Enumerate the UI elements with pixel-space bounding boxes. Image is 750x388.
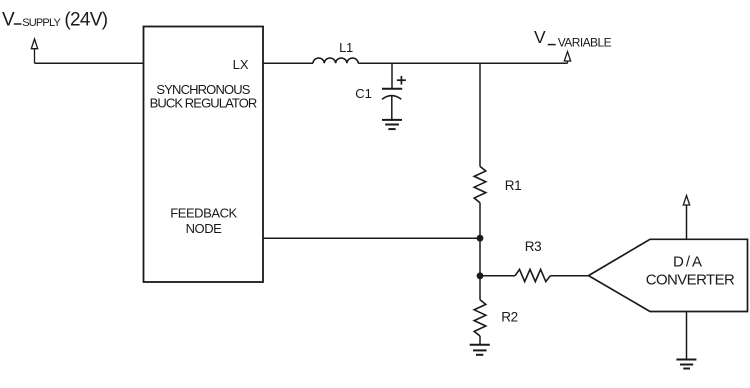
svg-text:(24V): (24V) bbox=[64, 9, 107, 30]
junction dot R2/R3 bbox=[477, 272, 484, 279]
svg-text:V: V bbox=[534, 27, 546, 47]
svg-text:C1: C1 bbox=[355, 86, 372, 101]
resistor R3 bbox=[515, 269, 550, 281]
wire C1 to ground bbox=[391, 96, 393, 120]
svg-text:FEEDBACK: FEEDBACK bbox=[170, 205, 237, 220]
arrow V_VARIABLE bbox=[564, 52, 570, 64]
junction dot feedback bbox=[477, 235, 484, 242]
capacitor C1 bbox=[382, 89, 402, 100]
svg-text:R2: R2 bbox=[501, 309, 517, 324]
svg-text:LX: LX bbox=[233, 57, 249, 72]
wire L1 to V_VARIABLE bbox=[358, 62, 567, 64]
svg-text:VARIABLE: VARIABLE bbox=[558, 35, 612, 49]
inductor L1 bbox=[313, 58, 358, 63]
ground (D/A) bbox=[676, 360, 696, 369]
ground (R2) bbox=[470, 345, 490, 355]
svg-text:L1: L1 bbox=[339, 40, 353, 55]
wire junction to R2 bbox=[479, 276, 481, 300]
wire R1 to feedback junction bbox=[479, 203, 481, 239]
polarity + of C1 bbox=[397, 76, 406, 85]
wire feedback junction to R3 junction bbox=[479, 238, 481, 276]
ground (C1) bbox=[382, 120, 402, 129]
resistor R2 bbox=[474, 300, 486, 336]
wire junction to R3 bbox=[480, 275, 515, 277]
wire R3 to D/A converter bbox=[550, 275, 588, 277]
regulator block SYNCHRONOUS BUCK REGULATOR bbox=[144, 27, 264, 283]
svg-text:R3: R3 bbox=[525, 239, 541, 254]
arrow D/A reference bbox=[683, 196, 689, 206]
wire branch to C1 bbox=[391, 63, 393, 88]
svg-text:CONVERTER: CONVERTER bbox=[646, 272, 735, 289]
svg-text:D/A: D/A bbox=[673, 254, 704, 271]
svg-text:BUCK REGULATOR: BUCK REGULATOR bbox=[150, 95, 257, 110]
power arrow V_SUPPLY bbox=[31, 39, 37, 63]
wire V_SUPPLY to regulator input bbox=[35, 62, 144, 64]
wire LX pin to L1 bbox=[263, 62, 313, 64]
wire V_VARIABLE line down to R1 bbox=[479, 63, 481, 166]
wire D/A top reference bbox=[686, 205, 688, 239]
D/A converter block bbox=[589, 239, 748, 311]
svg-text:NODE: NODE bbox=[186, 221, 223, 236]
svg-text:R1: R1 bbox=[505, 178, 521, 193]
wire R2 to ground bbox=[479, 336, 481, 345]
wire feedback node to regulator bbox=[263, 237, 480, 239]
resistor R1 bbox=[474, 166, 486, 202]
svg-text:V: V bbox=[2, 9, 15, 30]
wire D/A to ground bbox=[686, 312, 688, 360]
svg-text:SUPPLY: SUPPLY bbox=[22, 17, 61, 29]
